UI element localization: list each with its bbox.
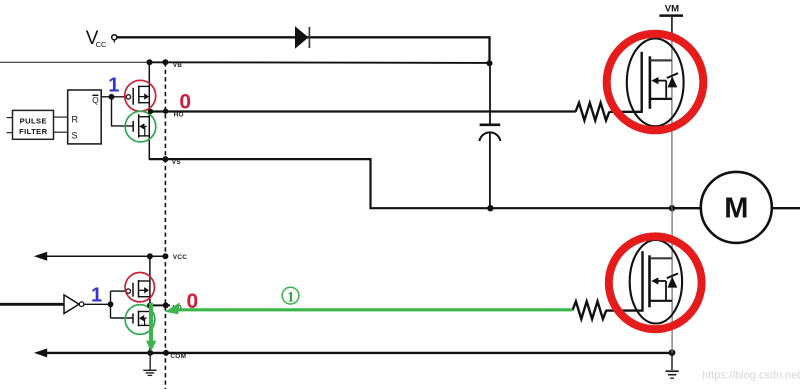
wire VB thin left segment <box>0 61 150 63</box>
wire resistor to M2 gate <box>606 309 643 311</box>
ground (right, power COM) <box>666 353 679 378</box>
SR latch U1 <box>68 90 102 144</box>
svg-text:VM: VM <box>665 3 679 14</box>
inverter U2 <box>0 295 84 314</box>
svg-text:CC: CC <box>96 40 107 49</box>
diode D1 bootstrap <box>295 26 309 49</box>
wire node to PMOS gate / NMOS gate (bottom driver) <box>111 291 134 318</box>
svg-text:0: 0 <box>179 91 191 114</box>
wire latch Q to driver input node <box>101 96 126 98</box>
svg-text:Q: Q <box>92 95 99 105</box>
wire inverter to node <box>84 303 111 305</box>
transistor P2 driver PMOS (bottom) <box>126 280 150 298</box>
transistor M2 low-side MOSFET <box>630 240 682 324</box>
node VS junction dots <box>162 156 675 211</box>
IC boundary dashed line <box>164 62 166 389</box>
wire VB to bootstrap node <box>150 61 490 64</box>
green step label circled 1 <box>282 287 299 305</box>
wire LO stub <box>150 304 170 306</box>
svg-text:VS: VS <box>172 159 182 166</box>
svg-text:PULSE: PULSE <box>20 117 47 126</box>
red circle highlight around M2 <box>609 236 702 329</box>
red circle highlight around M1 <box>607 34 704 131</box>
green discharge arrow (vertical, down) <box>146 303 156 352</box>
node VCC dots <box>147 253 169 259</box>
red circle highlight around P1 <box>125 80 156 111</box>
wire filter to latch S <box>54 131 68 133</box>
resistor R1 (high side gate) <box>576 103 610 121</box>
green feedback arrow (horizontal) <box>165 302 573 314</box>
svg-text:HO: HO <box>174 111 184 118</box>
node LO dots <box>147 302 169 308</box>
svg-text:COM: COM <box>170 353 186 360</box>
svg-text:S: S <box>72 130 78 140</box>
internal rail VCC-LO-COM (bottom driver) <box>149 256 151 353</box>
svg-text:FILTER: FILTER <box>19 127 48 136</box>
node HO junction dots <box>148 109 169 115</box>
wire filter to latch R <box>54 116 68 118</box>
wire HO output line <box>149 110 576 112</box>
node driver input (top) <box>109 94 115 100</box>
transistor N2 driver NMOS (bottom) <box>133 311 150 327</box>
internal rail VB-HO-VS (top driver) <box>148 62 150 160</box>
node VB junction dots <box>147 59 493 66</box>
VM supply <box>659 3 683 15</box>
pulse filter input stubs <box>7 118 13 133</box>
resistor R2 (low side gate) <box>573 301 607 319</box>
svg-text:VCC: VCC <box>173 254 187 261</box>
svg-text:M: M <box>724 193 748 225</box>
svg-text:1: 1 <box>287 290 294 306</box>
red circle highlight around P2 <box>125 273 154 302</box>
wire VCC line (low side, arrow left) <box>34 252 166 261</box>
pulse filter block <box>13 110 54 139</box>
node COM dots <box>147 349 675 356</box>
svg-text:VB: VB <box>173 62 183 69</box>
svg-text:https://blog.csdn.net: https://blog.csdn.net <box>702 370 800 382</box>
wire node down to NMOS gate (top driver) <box>112 97 133 126</box>
green circle highlight around N1 <box>125 111 156 142</box>
wire COM line <box>34 348 672 357</box>
wire VS route <box>149 159 672 208</box>
svg-text:1: 1 <box>108 75 119 97</box>
ground (left, driver COM) <box>143 353 156 376</box>
svg-text:R: R <box>72 115 79 125</box>
Vcc supply label <box>86 28 107 49</box>
transistor P1 driver PMOS (top) <box>126 86 149 105</box>
Vcc terminal circle <box>112 35 117 43</box>
wire Vcc top rail to bootstrap node <box>117 37 489 63</box>
svg-text:1: 1 <box>91 285 102 307</box>
transistor M1 high-side MOSFET <box>627 39 684 127</box>
wire rail through M2 <box>671 208 673 353</box>
motor M <box>672 172 800 243</box>
wire VM rail through M1 <box>671 17 673 40</box>
node driver input (bottom) <box>108 301 114 307</box>
green circle highlight around N2 <box>125 305 155 335</box>
wire resistor to M1 gate <box>609 111 641 113</box>
transistor N1 driver NMOS (top) <box>133 114 149 137</box>
capacitor C1 bootstrap <box>479 63 500 208</box>
